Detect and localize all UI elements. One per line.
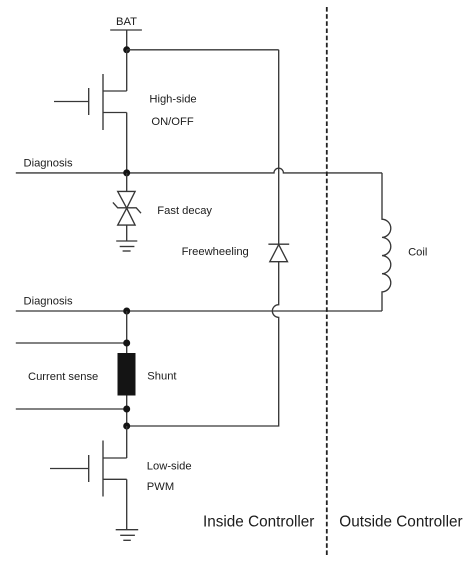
- svg-text:Diagnosis: Diagnosis: [24, 296, 74, 308]
- wire junction to shunt top node: [126, 311, 128, 426]
- svg-text:High-side: High-side: [149, 93, 196, 105]
- wire freewheeling branch top: [278, 50, 280, 244]
- svg-text:Freewheeling: Freewheeling: [182, 246, 249, 258]
- svg-text:Diagnosis: Diagnosis: [24, 157, 74, 169]
- resistor shunt: [118, 353, 136, 396]
- node shunt top: [123, 340, 130, 347]
- diode D1 fast decay TVS: [113, 191, 141, 225]
- wire lower diagnosis line: [16, 310, 382, 312]
- node BAT junction: [123, 46, 130, 53]
- inductor coil branch: [382, 173, 391, 311]
- svg-text:Inside Controller: Inside Controller: [203, 514, 314, 531]
- svg-text:BAT: BAT: [116, 16, 137, 28]
- svg-text:Outside Controller: Outside Controller: [339, 514, 462, 531]
- svg-text:ON/OFF: ON/OFF: [151, 116, 193, 128]
- svg-text:Shunt: Shunt: [147, 371, 177, 383]
- wire current sense lower stub: [16, 408, 127, 410]
- wire BAT terminal to junction: [126, 30, 128, 50]
- wire source of Q2 to ground: [126, 479, 128, 529]
- diode D2 freewheeling: [268, 244, 289, 262]
- wire freewheeling branch lower with hop over lower diagnosis line: [127, 262, 279, 426]
- svg-text:PWM: PWM: [147, 481, 174, 493]
- ground low-side: [116, 530, 139, 541]
- node upper diagnosis junction: [123, 169, 130, 176]
- node shunt bottom: [123, 406, 130, 413]
- BAT terminal bar: [110, 29, 142, 31]
- svg-text:Low-side: Low-side: [147, 460, 192, 472]
- wire BAT junction to freewheeling branch: [127, 49, 279, 51]
- transistor Q2 low-side MOSFET: [50, 441, 127, 497]
- svg-text:Current sense: Current sense: [28, 371, 98, 383]
- ground fast decay: [116, 241, 137, 251]
- controller boundary dashed line: [326, 7, 328, 555]
- svg-text:Fast decay: Fast decay: [157, 205, 212, 217]
- node lower diagnosis junction: [123, 308, 130, 315]
- transistor Q1 high-side MOSFET: [54, 74, 127, 130]
- wire diagnosis node to TVS: [126, 173, 128, 192]
- wire source of Q1 to diagnosis node: [126, 113, 128, 173]
- node return junction: [123, 423, 130, 430]
- wire drain of Q1: [126, 50, 128, 91]
- wire drain of Q2: [126, 426, 128, 458]
- svg-text:Coil: Coil: [408, 247, 427, 259]
- wire TVS to ground: [126, 225, 128, 241]
- wire upper diagnosis line with hop over freewheeling branch: [16, 168, 382, 173]
- wire current sense upper stub: [16, 342, 127, 344]
